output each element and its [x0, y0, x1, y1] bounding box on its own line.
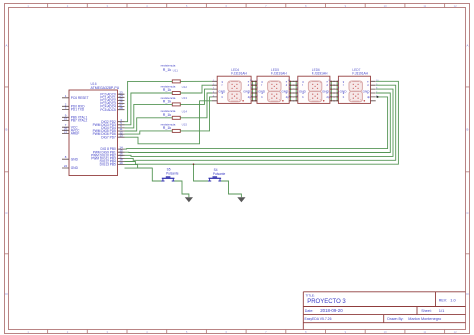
- bus wires PB0-PB5: [125, 81, 399, 168]
- svg-text:2018-09-20: 2018-09-20: [320, 308, 343, 313]
- svg-text:R_1k: R_1k: [163, 100, 172, 104]
- svg-text:11: 11: [423, 330, 426, 334]
- svg-text:DIG7 PD7: DIG7 PD7: [101, 135, 116, 139]
- svg-text:A: A: [467, 43, 469, 47]
- svg-text:AREF: AREF: [71, 132, 80, 136]
- svg-text:Date:: Date:: [305, 309, 314, 313]
- wire PD7 to display pin 6: [125, 101, 213, 144]
- display pin stubs: [252, 81, 295, 101]
- svg-text:TITLE:: TITLE:: [306, 294, 315, 298]
- 7-segment display LED6 F.J3191AH: [298, 76, 330, 103]
- svg-text:12: 12: [454, 4, 457, 8]
- svg-text:U15: U15: [182, 123, 188, 127]
- digit glyph: [228, 81, 241, 91]
- wire to button S5: [125, 168, 162, 181]
- svg-text:C: C: [5, 211, 7, 215]
- svg-text:ATMEGA328P-PU: ATMEGA328P-PU: [91, 86, 120, 90]
- svg-text:U11: U11: [173, 68, 179, 72]
- 7-segment display LED5 F.J3191AH: [257, 76, 289, 103]
- svg-text:F.J3191AH: F.J3191AH: [312, 72, 328, 76]
- 7-segment display LED4 F.J3191AH: [217, 76, 251, 103]
- svg-text:R_1k: R_1k: [163, 68, 172, 72]
- svg-text:10: 10: [384, 4, 387, 8]
- IC U16 ATMEGA328P-PU: [69, 90, 118, 176]
- svg-text:U13: U13: [182, 96, 188, 100]
- svg-text:C: C: [466, 211, 468, 215]
- ground GND2: [237, 197, 245, 202]
- svg-text:R_1k: R_1k: [163, 126, 172, 130]
- display pin stubs: [333, 81, 376, 101]
- svg-text:F.J3191AH: F.J3191AH: [271, 72, 287, 76]
- ground GND1: [185, 197, 193, 202]
- chip pin stubs: [62, 94, 125, 168]
- svg-text:A: A: [6, 43, 8, 47]
- svg-text:PC5 ADC5: PC5 ADC5: [100, 108, 116, 112]
- svg-text:resistencia: resistencia: [161, 64, 176, 68]
- digit glyph: [349, 81, 362, 91]
- svg-text:PB7 XTAL2: PB7 XTAL2: [71, 119, 88, 123]
- wire U14 to display: [180, 93, 212, 118]
- svg-text:R_1k: R_1k: [163, 113, 172, 117]
- 7-segment display LED7 F.J3191AH: [338, 76, 370, 103]
- junction dots: [253, 81, 338, 101]
- svg-text:Sheet:: Sheet:: [421, 309, 431, 313]
- svg-text:B: B: [467, 128, 469, 132]
- svg-text:Drawn By:: Drawn By:: [387, 317, 403, 321]
- svg-text:PD1 TXD: PD1 TXD: [71, 108, 85, 112]
- wire PD3 to U12: [125, 93, 173, 125]
- svg-text:R_1k: R_1k: [163, 88, 172, 92]
- wire PD4 to U13: [125, 104, 173, 128]
- svg-text:12: 12: [454, 330, 457, 334]
- wire PD6 to U15: [125, 131, 173, 134]
- wire U13 to display: [180, 89, 212, 104]
- wire to button S4: [194, 164, 209, 181]
- svg-text:B: B: [6, 128, 8, 132]
- svg-text:D: D: [5, 292, 7, 296]
- wire button S5 to ground: [174, 181, 189, 197]
- svg-text:U12: U12: [182, 85, 188, 89]
- svg-text:U14: U14: [182, 110, 188, 114]
- svg-text:GND: GND: [71, 157, 79, 161]
- svg-text:DIG13 PB5: DIG13 PB5: [100, 163, 116, 167]
- svg-text:Pulsante: Pulsante: [166, 171, 179, 175]
- svg-text:Marlon Montenegro: Marlon Montenegro: [408, 317, 441, 321]
- svg-text:22: 22: [64, 164, 68, 168]
- wire PD2 to U11: [125, 81, 173, 121]
- svg-text:F.J3191AH: F.J3191AH: [231, 72, 247, 76]
- svg-text:GND: GND: [71, 166, 79, 170]
- wire U11 to display: [180, 80, 212, 82]
- svg-text:11: 11: [423, 4, 426, 8]
- svg-text:D: D: [466, 292, 468, 296]
- junction at display LED7 pin: [377, 96, 379, 98]
- svg-text:1.0: 1.0: [450, 298, 456, 303]
- svg-text:EasyEDA V5.7.26: EasyEDA V5.7.26: [305, 317, 332, 321]
- svg-text:F.J3191AH: F.J3191AH: [352, 72, 368, 76]
- svg-text:Pulsante: Pulsante: [213, 172, 226, 176]
- svg-text:PROYECTO 3: PROYECTO 3: [307, 299, 346, 305]
- svg-text:PC6 RESET: PC6 RESET: [71, 96, 89, 100]
- wire PD5 to U14: [125, 118, 173, 131]
- display pin stubs: [212, 81, 256, 101]
- digit glyph: [268, 81, 281, 91]
- svg-text:10: 10: [384, 330, 387, 334]
- svg-text:1/1: 1/1: [439, 308, 445, 313]
- wire button S4 to ground: [221, 181, 241, 197]
- wire U15 to display: [180, 97, 212, 131]
- svg-text:REV:: REV:: [439, 299, 447, 303]
- wire U12 to display: [180, 85, 212, 93]
- digit glyph: [308, 81, 321, 91]
- display pin stubs: [293, 81, 336, 101]
- title block: [303, 292, 465, 330]
- inter-display bus wires: [253, 81, 338, 101]
